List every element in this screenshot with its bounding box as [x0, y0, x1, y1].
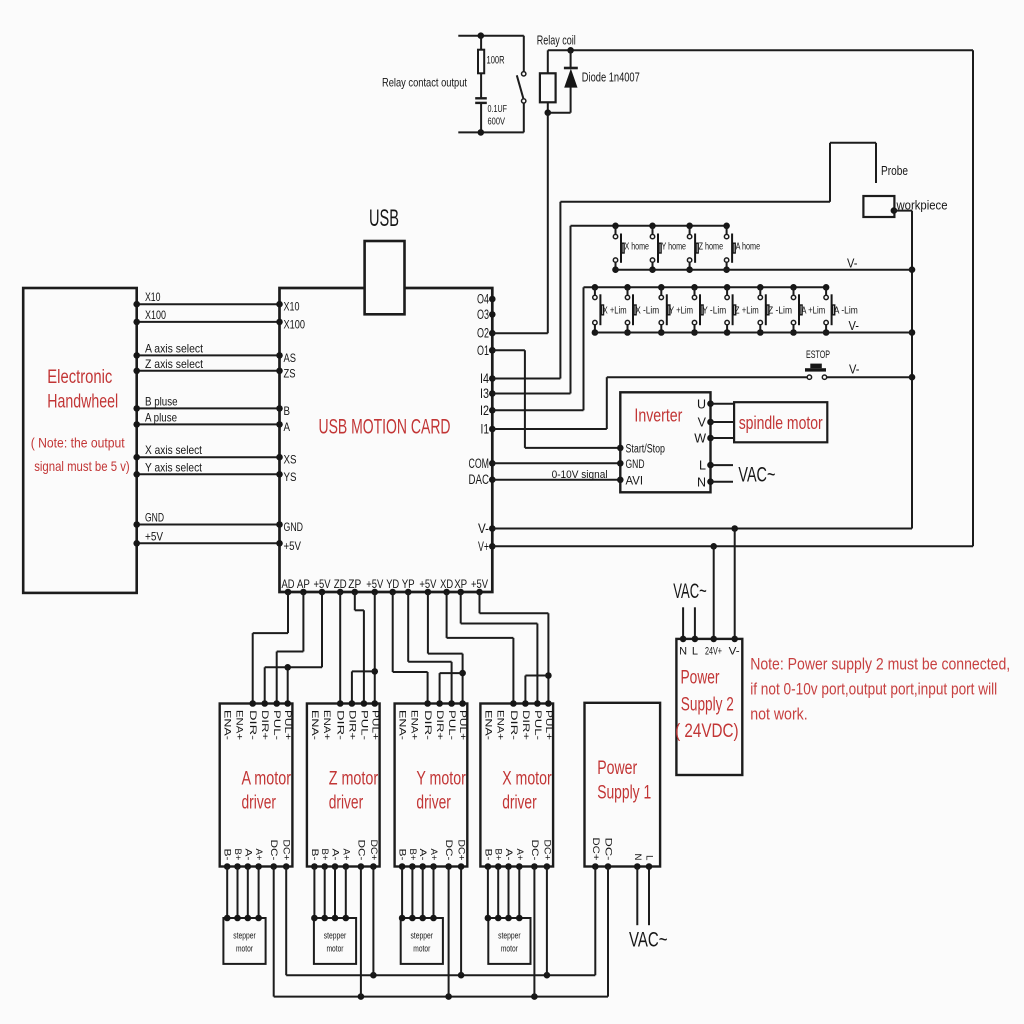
wire A handwheel to card [133, 421, 282, 428]
card pin DAC [469, 472, 496, 487]
svg-text:A+: A+ [428, 849, 439, 861]
svg-text:Z axis select: Z axis select [145, 357, 204, 371]
wire I3 to home switch rail [492, 226, 726, 394]
A motor driver box [220, 704, 293, 867]
switch Z -Lim [757, 284, 792, 336]
svg-text:AS: AS [284, 351, 297, 365]
svg-text:X10: X10 [145, 290, 161, 304]
wire AS handwheel to card [133, 352, 282, 359]
inverter pin U [697, 397, 714, 411]
svg-text:Relay coil: Relay coil [537, 34, 576, 48]
svg-text:X motor: X motor [502, 768, 552, 789]
wire relay coil to O2 [492, 113, 548, 334]
svg-text:L: L [692, 646, 698, 658]
svg-text:ENA-: ENA- [482, 710, 493, 740]
svg-text:motor: motor [413, 944, 430, 955]
svg-text:24V+: 24V+ [705, 646, 722, 658]
svg-text:DC-: DC- [268, 840, 279, 861]
svg-text:I3: I3 [480, 386, 489, 401]
svg-text:stepper: stepper [498, 931, 521, 942]
card bottom pin AP [297, 577, 310, 595]
Z driver bottom pin dots [311, 863, 377, 870]
svg-text:V-: V- [847, 255, 858, 270]
svg-text:X10: X10 [284, 300, 300, 314]
wire workpiece to V- riser [891, 207, 912, 528]
wire A driver DC+ to bus [285, 867, 287, 976]
card pin COM [469, 456, 496, 471]
svg-text:YS: YS [284, 470, 297, 484]
V+ wire card to right riser [492, 543, 973, 550]
card pin I1 [481, 422, 496, 437]
svg-text:+5V: +5V [471, 577, 488, 591]
svg-text:X axis select: X axis select [145, 443, 203, 457]
svg-text:( 24VDC): ( 24VDC) [675, 721, 739, 742]
svg-text:ENA-: ENA- [222, 710, 233, 740]
svg-text:PUL-: PUL- [358, 710, 369, 740]
card pin V+ [478, 539, 496, 554]
svg-text:B+: B+ [319, 849, 330, 861]
svg-text:DC+: DC+ [368, 840, 379, 861]
svg-text:Electronic: Electronic [47, 367, 112, 388]
card bottom pin ZD [334, 577, 347, 595]
relay contact switch SW1 [517, 36, 526, 133]
svg-text:PUL-: PUL- [532, 710, 543, 740]
svg-text:PUL+: PUL+ [369, 710, 380, 740]
svg-text:X100: X100 [145, 308, 166, 322]
svg-text:motor: motor [501, 944, 518, 955]
switch Z +Lim [724, 284, 759, 336]
card pin O1 [477, 343, 496, 358]
home switches V- rail [616, 255, 913, 270]
svg-text:ENA+: ENA+ [234, 710, 245, 740]
switch A home [723, 223, 760, 274]
svg-text:PUL-: PUL- [271, 710, 282, 740]
svg-text:PUL+: PUL+ [282, 710, 293, 740]
svg-text:A+: A+ [514, 849, 525, 861]
svg-text:DIR-: DIR- [334, 710, 345, 740]
svg-text:DIR+: DIR+ [259, 710, 270, 741]
PS2 terminal L [692, 607, 699, 657]
svg-text:ENA+: ENA+ [321, 710, 332, 740]
svg-text:ENA-: ENA- [397, 710, 408, 740]
svg-text:A home: A home [736, 241, 761, 253]
wires Y driver to stepper motor [399, 867, 437, 922]
power supply 2 box [676, 639, 742, 775]
wire U to spindle motor [711, 403, 735, 405]
svg-text:DC+: DC+ [456, 840, 467, 861]
switch A -Lim [823, 284, 858, 336]
svg-text:AD: AD [282, 577, 295, 591]
svg-text:VAC~: VAC~ [673, 580, 707, 603]
Z driver bottom pin labels [309, 840, 379, 861]
svg-text:N: N [697, 475, 706, 489]
card bottom pin +5V [471, 577, 488, 595]
wire XD to X driver DIR- [447, 592, 517, 707]
A driver bottom pin labels [222, 840, 292, 861]
card pin I2 [480, 403, 496, 418]
wire PS1 DC- to bus [607, 867, 609, 997]
card pin I4 [480, 371, 496, 386]
X driver bottom pin dots [485, 863, 551, 870]
svg-text:V: V [698, 416, 707, 430]
svg-text:Y axis select: Y axis select [145, 460, 203, 474]
svg-text:Z motor: Z motor [329, 768, 379, 789]
svg-text:B pluse: B pluse [145, 394, 178, 408]
wire AD to A driver DIR- [249, 592, 288, 707]
wires A driver to stepper motor [224, 867, 262, 922]
Y driver bottom pin labels [397, 840, 467, 861]
wire X driver DC+ to bus [546, 867, 548, 976]
svg-text:DAC: DAC [469, 472, 490, 487]
svg-text:XP: XP [454, 577, 467, 591]
PS1 N wire [636, 867, 638, 926]
capacitor C1 0.1UF 600V [475, 98, 507, 132]
svg-text:DC-: DC- [529, 840, 540, 861]
wire YD to Y driver DIR- [393, 592, 431, 707]
svg-text:YP: YP [402, 577, 415, 591]
wire +5V to Z driver PUL+ DIR+ [349, 592, 378, 707]
X motor driver box [480, 704, 553, 867]
svg-text:A +Lim: A +Lim [801, 305, 825, 317]
svg-text:Z +Lim: Z +Lim [735, 305, 759, 317]
svg-text:V-: V- [478, 521, 489, 536]
svg-text:Note: Power supply 2 must be c: Note: Power supply 2 must be connected, [750, 655, 1010, 674]
wire Z driver DC+ to bus [372, 867, 374, 976]
wire XP to X driver PUL- [461, 592, 541, 707]
note text [750, 655, 1010, 724]
wire V to spindle motor [711, 421, 735, 423]
inverter L stub [711, 464, 734, 466]
svg-text:U: U [697, 397, 706, 411]
Z driver top pin labels [309, 710, 381, 741]
switch X home [612, 223, 649, 274]
wire B handwheel to card [133, 405, 282, 412]
Y driver top pin labels [397, 710, 469, 741]
svg-text:Probe: Probe [881, 164, 908, 178]
PS2 terminal 24V+ wire to V+ line [705, 546, 722, 657]
inverter pin Start/Stop [617, 443, 665, 455]
inverter N stub [711, 481, 734, 483]
card pin V- [478, 521, 496, 536]
power supply 1 title [597, 758, 651, 804]
inverter pin GND [617, 459, 645, 471]
workpiece block [863, 196, 947, 217]
svg-text:DC+: DC+ [590, 838, 601, 861]
DC- bus wire [274, 993, 608, 1000]
card bottom pin XD [440, 577, 453, 595]
stepper motor Y [401, 918, 443, 964]
inverter pin L [699, 459, 714, 473]
wire Y driver DC+ to bus [460, 867, 462, 976]
svg-text:Supply 1: Supply 1 [597, 782, 651, 803]
card pin O4 [477, 292, 496, 307]
ESTOP switch [805, 349, 830, 380]
X driver bottom pin labels [482, 840, 552, 861]
wire +5V to A driver PUL+ DIR+ [261, 592, 322, 707]
wire DAC to inverter AVI 0-10V signal [492, 469, 620, 481]
svg-text:Relay contact output: Relay contact output [382, 76, 468, 90]
svg-text:600V: 600V [488, 115, 506, 127]
wire +5V handwheel to card [133, 540, 282, 547]
USB connector [365, 241, 405, 314]
stepper motor Z [314, 918, 356, 964]
svg-text:DIR+: DIR+ [346, 710, 357, 741]
svg-text:B: B [284, 404, 291, 418]
svg-text:O1: O1 [477, 343, 489, 358]
wires Z driver to stepper motor [311, 867, 349, 922]
V- riser junction dots [909, 266, 916, 380]
PS1 terminal N [632, 854, 643, 870]
switch X -Lim [624, 284, 659, 336]
wire ZP to Z driver PUL- [355, 592, 367, 707]
svg-text:+5V: +5V [366, 577, 383, 591]
wire YP to Y driver PUL- [408, 592, 455, 707]
wire COM to inverter GND [492, 462, 620, 464]
PS2 terminal N [679, 607, 687, 657]
svg-text:PUL+: PUL+ [543, 710, 554, 740]
svg-text:ENA-: ENA- [309, 710, 320, 740]
svg-text:DC-: DC- [355, 840, 366, 861]
svg-text:ZP: ZP [348, 577, 361, 591]
card bottom pin +5V [419, 577, 436, 595]
svg-text:A-: A- [330, 849, 341, 861]
svg-text:Y home: Y home [662, 241, 687, 253]
svg-text:XD: XD [440, 577, 453, 591]
stepper motor A [223, 918, 265, 964]
svg-text:DC-: DC- [603, 838, 614, 861]
right-edge V+ riser wire [972, 50, 974, 546]
diode D1 1n4007 [564, 50, 640, 112]
switch A +Lim [790, 284, 825, 336]
wire PS1 DC+ to bus [594, 867, 596, 976]
wire +5V to X driver PUL+ DIR+ [480, 592, 552, 707]
svg-text:PUL-: PUL- [446, 710, 457, 740]
svg-text:Start/Stop: Start/Stop [626, 443, 666, 455]
svg-text:motor: motor [236, 944, 253, 955]
wire ZD to Z driver DIR- [337, 592, 344, 707]
X driver top pin labels [482, 710, 554, 741]
card bottom pin +5V [366, 577, 383, 595]
svg-text:AP: AP [297, 577, 310, 591]
wire XS handwheel to card [133, 454, 282, 461]
power supply 2 title [675, 668, 739, 742]
svg-text:O4: O4 [477, 292, 489, 307]
svg-text:Z home: Z home [699, 241, 724, 253]
svg-text:Supply 2: Supply 2 [681, 695, 734, 716]
A driver top pin labels [222, 710, 294, 741]
svg-text:AVI: AVI [626, 475, 644, 487]
wire X driver DC- to bus [533, 867, 535, 997]
wire I4 to probe net [492, 143, 876, 379]
svg-text:driver: driver [502, 792, 537, 813]
limit switches V- rail [595, 318, 912, 333]
svg-text:0-10V signal: 0-10V signal [552, 469, 608, 481]
inverter pin V [698, 416, 714, 430]
Z motor driver box [307, 704, 380, 867]
PS1 L wire [648, 867, 650, 926]
svg-text:DIR-: DIR- [247, 710, 258, 740]
svg-text:GND: GND [284, 520, 304, 534]
svg-text:signal must be 5 v): signal must be 5 v) [34, 458, 130, 474]
power supply 1 box [585, 703, 661, 867]
svg-text:Power: Power [681, 668, 720, 689]
card bottom pin AD [282, 577, 295, 595]
wire ZS handwheel to card [133, 368, 282, 375]
svg-text:100R: 100R [487, 55, 505, 67]
svg-text:not work.: not work. [750, 705, 808, 724]
inverter pin AVI [617, 475, 643, 487]
handwheel note text [31, 435, 130, 475]
svg-text:B-: B- [222, 849, 233, 861]
svg-text:ENA+: ENA+ [494, 710, 505, 740]
svg-text:DC+: DC+ [281, 840, 292, 861]
inverter pin N [697, 475, 714, 489]
relay coil top wire to V+ riser [548, 47, 973, 54]
relay coil K1 [540, 50, 571, 116]
wire I2 to limit switch rail [492, 287, 826, 410]
svg-text:+5V: +5V [284, 539, 302, 553]
svg-text:I1: I1 [481, 422, 490, 437]
svg-text:A-: A- [242, 849, 253, 861]
svg-text:USB MOTION CARD: USB MOTION CARD [319, 416, 451, 439]
card pin O2 [477, 326, 496, 341]
wire X100 handwheel to card [133, 319, 282, 326]
svg-text:spindle motor: spindle motor [739, 413, 823, 433]
svg-text:Y motor: Y motor [416, 768, 466, 789]
resistor R1 100R [478, 36, 505, 98]
snubber top wire [458, 32, 524, 39]
svg-text:X home: X home [625, 241, 650, 253]
svg-text:V-: V- [849, 362, 860, 377]
switch Y home [649, 223, 686, 274]
USB motion card U1 [280, 288, 493, 592]
svg-text:V-: V- [849, 318, 860, 333]
PS1 terminal DC+ [590, 838, 601, 870]
svg-text:GND: GND [145, 511, 164, 525]
svg-text:A+: A+ [253, 849, 264, 861]
svg-text:DIR+: DIR+ [434, 710, 445, 741]
svg-text:Inverter: Inverter [634, 405, 682, 426]
PS1 terminal DC- [603, 838, 614, 870]
wire GND handwheel to card [133, 521, 282, 528]
svg-text:B+: B+ [493, 849, 504, 861]
svg-text:O2: O2 [477, 326, 489, 341]
svg-text:VAC~: VAC~ [629, 929, 668, 952]
Y driver bottom pin dots [399, 863, 465, 870]
electronic handwheel box [23, 288, 137, 593]
svg-text:ZD: ZD [334, 577, 347, 591]
handwheel title text [47, 367, 118, 412]
svg-text:N: N [679, 646, 687, 658]
svg-text:B-: B- [397, 849, 408, 861]
inverter pin W [694, 432, 714, 446]
svg-text:A: A [284, 420, 291, 434]
wire I1 to ESTOP [492, 377, 807, 429]
svg-text:DC-: DC- [443, 840, 454, 861]
card bottom pin XP [454, 577, 467, 595]
svg-text:X -Lim: X -Lim [635, 305, 659, 317]
wire ESTOP to V- riser [827, 362, 912, 378]
X motor driver title [502, 768, 552, 813]
svg-text:DIR+: DIR+ [520, 710, 531, 741]
svg-text:A -Lim: A -Lim [834, 305, 858, 317]
svg-text:ENA+: ENA+ [409, 710, 420, 740]
V- wire card to riser [492, 525, 912, 532]
card bottom pin ZP [348, 577, 361, 595]
PS2 terminal V- wire to V- line [729, 529, 740, 658]
svg-text:N: N [632, 854, 643, 861]
svg-text:( Note: the output: ( Note: the output [31, 435, 125, 451]
switch Y +Lim [658, 284, 693, 336]
A driver bottom pin dots [224, 863, 290, 870]
svg-text:ZS: ZS [284, 366, 296, 380]
A motor driver title [242, 768, 292, 813]
wire Z driver DC- to bus [360, 867, 362, 997]
svg-text:+5V: +5V [419, 577, 436, 591]
svg-text:COM: COM [469, 456, 490, 471]
svg-text:0.1UF: 0.1UF [488, 103, 508, 115]
card pin O3 [477, 307, 496, 322]
svg-text:X100: X100 [284, 317, 306, 331]
wires X driver to stepper motor [485, 867, 523, 922]
svg-text:B-: B- [309, 849, 320, 861]
switch X +Lim [592, 284, 627, 336]
svg-text:USB: USB [369, 205, 399, 232]
svg-text:ESTOP: ESTOP [806, 349, 830, 361]
DC+ bus wire [286, 972, 595, 979]
svg-text:A motor: A motor [242, 768, 292, 789]
Y motor driver title [416, 768, 466, 813]
wire Y driver DC- to bus [448, 867, 450, 997]
card pin I3 [480, 386, 496, 401]
inverter U2 [620, 392, 710, 492]
svg-text:+5V: +5V [145, 529, 163, 543]
svg-text:L: L [644, 855, 655, 861]
svg-text:PUL+: PUL+ [457, 710, 468, 740]
svg-text:driver: driver [242, 792, 277, 813]
svg-text:motor: motor [327, 944, 344, 955]
svg-text:stepper: stepper [233, 931, 256, 942]
svg-text:A axis select: A axis select [145, 341, 204, 355]
svg-text:L: L [699, 459, 706, 473]
svg-text:I4: I4 [480, 371, 489, 386]
switch Z home [686, 223, 723, 274]
svg-text:XS: XS [284, 453, 297, 467]
svg-text:stepper: stepper [411, 931, 434, 942]
svg-text:stepper: stepper [324, 931, 347, 942]
svg-text:I2: I2 [480, 403, 489, 418]
svg-text:W: W [694, 432, 706, 446]
svg-text:O3: O3 [477, 307, 489, 322]
card bottom pin YP [402, 577, 415, 595]
svg-text:Y -Lim: Y -Lim [702, 305, 726, 317]
svg-text:DIR-: DIR- [422, 710, 433, 740]
wire X10 handwheel to card [133, 301, 282, 308]
wire AP to A driver PUL- [273, 592, 303, 707]
svg-text:V-: V- [729, 646, 740, 658]
svg-text:Handwheel: Handwheel [47, 391, 118, 412]
svg-text:DC+: DC+ [541, 840, 552, 861]
wire W to spindle motor [711, 437, 735, 439]
wire O1 to inverter Start/Stop [489, 347, 620, 448]
svg-text:A pluse: A pluse [145, 410, 177, 424]
switch Y -Lim [691, 284, 726, 336]
svg-text:A+: A+ [340, 849, 351, 861]
svg-text:driver: driver [416, 792, 451, 813]
svg-text:B+: B+ [407, 849, 418, 861]
PS1 terminal L [644, 855, 655, 870]
svg-text:VAC~: VAC~ [738, 463, 775, 487]
